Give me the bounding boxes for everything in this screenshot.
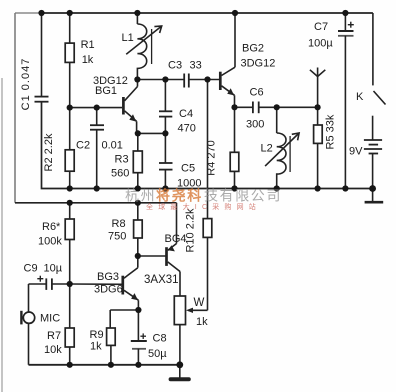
svg-text:470: 470 [178,123,196,135]
label R7 10k [44,330,62,356]
switch K [373,13,386,140]
svg-text:R5 33k: R5 33k [325,114,337,149]
svg-text:技有限公司: 技有限公司 [204,188,282,204]
resistor R2 [65,108,74,189]
label BG1 3DG12 [93,75,128,97]
svg-text:C3: C3 [168,60,182,72]
svg-text:W: W [194,297,205,309]
svg-text:R3: R3 [115,154,129,166]
battery 9V [364,140,382,189]
capacitor C7 [338,13,354,189]
svg-text:10µ: 10µ [44,263,63,275]
svg-text:C1 0.047: C1 0.047 [20,58,32,111]
capacitor C5 [159,133,173,188]
wire BG1 emitter node [137,132,166,134]
label R1 1k [81,39,95,66]
svg-text:BG4: BG4 [165,233,187,245]
wire audio +9V feed rail [15,202,177,204]
svg-text:全球最大IC采购网站: 全球最大IC采购网站 [146,202,261,211]
label C9 10u [24,263,63,275]
wire top +9V rail [15,12,42,14]
svg-text:3AX31: 3AX31 [144,274,179,286]
transistor BG1 [123,80,137,134]
svg-text:L2: L2 [261,143,273,155]
resistor R4 [230,107,239,188]
transistor BG3 [123,256,139,310]
label C6 300 [246,87,264,131]
svg-text:C6: C6 [250,87,264,99]
resistor R5 [314,107,323,188]
label C5 1000 [177,163,201,190]
label BG3 3DG6 [94,271,123,296]
resistor R1 [65,13,74,108]
label C3 33 [168,60,202,72]
antenna [310,68,325,108]
label R6* 100k [38,221,62,248]
svg-text:50µ: 50µ [148,348,167,360]
wire BG3 collector to BG4 base [138,255,166,257]
capacitor C1 [35,13,49,102]
label BG4 3AX31 [144,233,187,286]
wire BG1 collector node [137,79,184,81]
svg-text:1k: 1k [82,54,94,66]
svg-text:R6*: R6* [42,221,61,233]
svg-text:杭州: 杭州 [125,188,156,204]
label C7 100u [308,21,333,50]
resistor R10 [203,80,212,311]
label C2 0.01 [76,140,123,152]
ground right [365,189,384,203]
svg-text:MIC: MIC [40,313,60,325]
inductor L2 [265,107,299,188]
resistor R9 [107,328,116,365]
capacitor C3 [184,74,220,88]
label BG2 3DG12 [241,43,276,70]
capacitor C4 [159,80,172,134]
resistor R8 [134,203,143,256]
resistor R7 [65,284,74,365]
svg-text:R1: R1 [81,39,95,51]
svg-text:10k: 10k [44,344,62,356]
svg-text:3DG6: 3DG6 [94,284,123,296]
wire bottom audio ground rail [29,364,180,366]
svg-text:100µ: 100µ [308,38,333,50]
transistor BG2 [220,13,235,107]
microphone MIC [21,284,34,365]
svg-text:0.01: 0.01 [102,140,123,152]
ground bottom [171,365,189,379]
label R3 560 [111,154,129,180]
svg-text:BG3: BG3 [97,271,119,283]
svg-text:BG2: BG2 [242,43,264,55]
svg-text:750: 750 [108,231,126,243]
capacitor C9 [29,276,70,290]
wire left edge from +9V down to audio feed rail [14,13,16,203]
svg-text:9V: 9V [349,146,363,158]
transistor BG4 [167,203,181,296]
svg-text:300: 300 [246,119,264,131]
svg-text:C8: C8 [153,333,167,345]
svg-text:560: 560 [111,168,129,180]
capacitor C6 [253,102,318,114]
svg-text:C4: C4 [179,108,193,120]
potentiometer W [174,296,207,365]
svg-text:R7: R7 [47,330,61,342]
capacitor C8 [131,310,147,365]
svg-text:R9: R9 [90,329,104,341]
label W 1k [194,297,209,328]
svg-text:C9: C9 [24,263,38,275]
wire BG3 emitter node [110,310,138,328]
svg-text:100k: 100k [38,236,62,248]
resistor R6 [65,203,74,284]
svg-text:R2 2.2k: R2 2.2k [43,133,55,171]
svg-text:R8: R8 [112,218,126,230]
wire BG3 base [70,283,122,285]
label R8 750 [108,218,126,243]
resistor R3 [133,133,142,188]
inductor L1 [126,13,162,80]
wire BG2 emitter node [235,106,253,108]
svg-text:3DG12: 3DG12 [241,58,276,70]
capacitor C2 [90,108,104,189]
svg-text:将尧科: 将尧科 [156,188,203,204]
svg-text:33: 33 [190,60,202,72]
watermark big text [125,188,282,204]
label R9 1k [90,329,104,353]
svg-text:1k: 1k [90,341,102,353]
svg-text:C5: C5 [181,163,195,175]
wire ground rail [42,102,373,189]
svg-text:R10 2.2k: R10 2.2k [185,208,197,253]
svg-text:K: K [356,91,364,103]
label C8 50u [148,333,167,361]
svg-text:BG1: BG1 [95,85,117,97]
wire BG1 base node [70,107,122,109]
scan edge artifact left [1,78,3,392]
svg-text:L1: L1 [122,32,134,44]
svg-text:C7: C7 [314,21,328,33]
label C4 470 [178,108,196,135]
svg-text:C2: C2 [76,140,90,152]
svg-text:1k: 1k [196,316,208,328]
